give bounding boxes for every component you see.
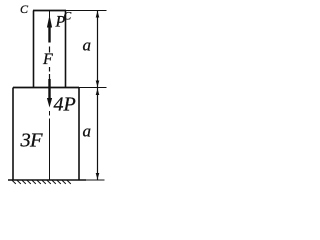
svg-text:P: P [55,14,66,31]
svg-text:C: C [20,2,29,16]
svg-text:3F: 3F [20,129,44,151]
svg-text:F: F [42,51,53,68]
svg-text:a: a [83,36,92,55]
svg-text:a: a [83,122,92,141]
svg-text:4P: 4P [54,94,76,116]
